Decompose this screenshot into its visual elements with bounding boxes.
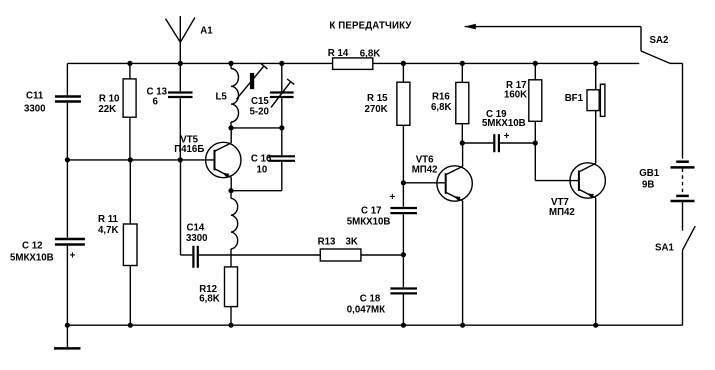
svg-text:R 11: R 11 xyxy=(98,214,119,225)
svg-text:МП42: МП42 xyxy=(412,164,438,175)
svg-text:L5: L5 xyxy=(216,92,228,103)
svg-text:6,8K: 6,8K xyxy=(431,102,451,113)
svg-text:МП42: МП42 xyxy=(549,207,575,218)
svg-text:R16: R16 xyxy=(432,91,450,102)
svg-text:GB1: GB1 xyxy=(639,168,660,179)
svg-text:SA1: SA1 xyxy=(655,243,674,254)
svg-text:C14: C14 xyxy=(187,223,205,234)
svg-text:9В: 9В xyxy=(642,180,654,191)
svg-text:10: 10 xyxy=(257,164,268,175)
svg-text:22K: 22K xyxy=(98,104,116,115)
svg-text:К ПЕРЕДАТЧИКУ: К ПЕРЕДАТЧИКУ xyxy=(329,20,412,31)
svg-text:3300: 3300 xyxy=(24,103,46,114)
svg-text:C 16: C 16 xyxy=(251,153,272,164)
svg-text:SA2: SA2 xyxy=(650,35,669,46)
svg-text:0,047МК: 0,047МК xyxy=(347,305,385,316)
svg-text:П416Б: П416Б xyxy=(174,144,204,155)
svg-text:R 10: R 10 xyxy=(99,93,119,104)
svg-text:270K: 270K xyxy=(365,104,388,115)
svg-text:A1: A1 xyxy=(200,25,213,36)
svg-text:3K: 3K xyxy=(346,237,358,248)
svg-text:+: + xyxy=(70,251,76,262)
svg-text:R 15: R 15 xyxy=(367,93,388,104)
svg-text:160K: 160K xyxy=(504,89,527,100)
svg-text:6,8K: 6,8K xyxy=(360,48,380,59)
svg-text:5МКХ10В: 5МКХ10В xyxy=(347,217,391,228)
svg-text:C 18: C 18 xyxy=(360,294,381,305)
svg-text:+: + xyxy=(504,131,510,142)
svg-text:C11: C11 xyxy=(26,90,44,101)
svg-text:C 12: C 12 xyxy=(22,240,42,251)
svg-text:5МКХ10В: 5МКХ10В xyxy=(10,253,54,264)
svg-text:5МКХ10В: 5МКХ10В xyxy=(482,118,526,129)
svg-text:4,7K: 4,7K xyxy=(98,225,118,236)
svg-text:6: 6 xyxy=(153,97,159,108)
svg-text:C15: C15 xyxy=(251,96,269,107)
svg-text:C 17: C 17 xyxy=(361,206,381,217)
svg-text:R 14: R 14 xyxy=(328,48,349,59)
svg-text:5-20: 5-20 xyxy=(250,107,269,118)
svg-text:3300: 3300 xyxy=(186,233,208,244)
svg-text:R13: R13 xyxy=(318,237,336,248)
svg-text:+: + xyxy=(390,192,396,203)
svg-text:6,8K: 6,8K xyxy=(199,294,219,305)
svg-text:BF1: BF1 xyxy=(565,93,584,104)
